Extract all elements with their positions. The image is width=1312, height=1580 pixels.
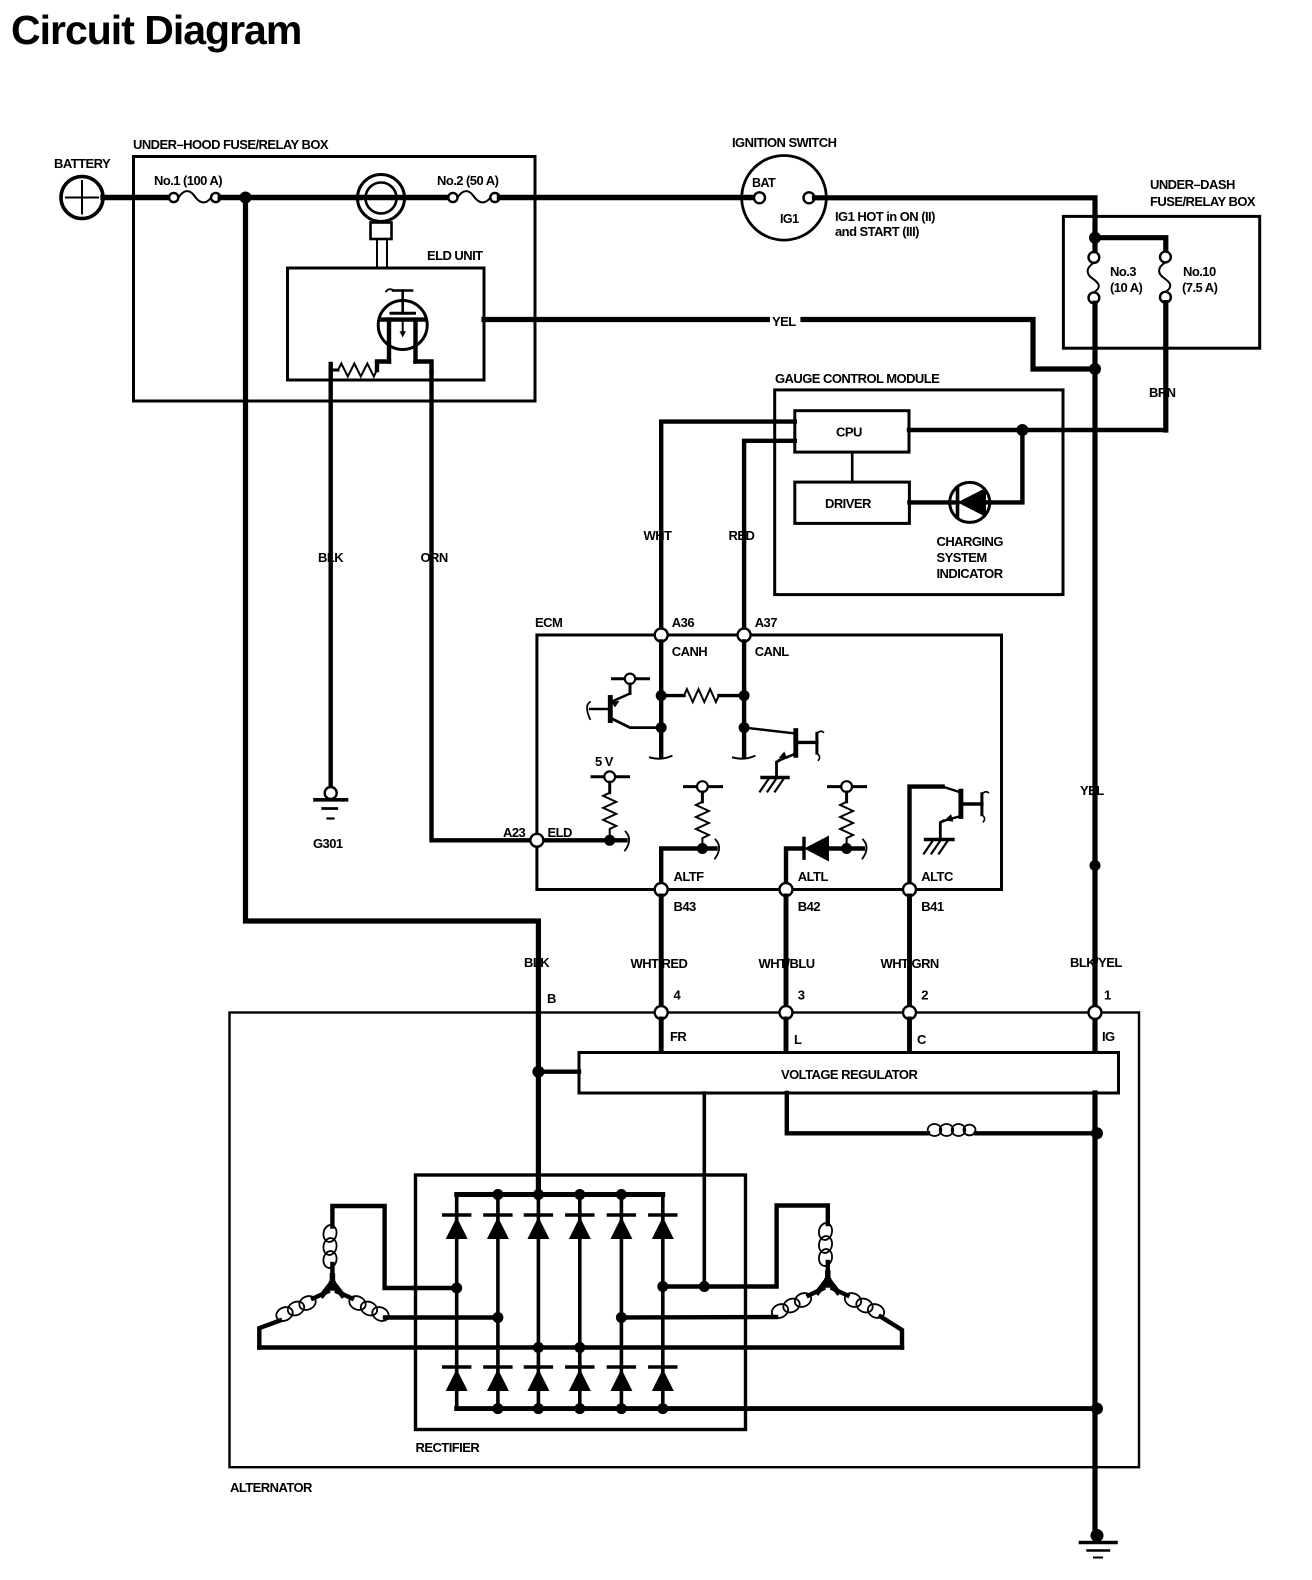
node leg4 tap <box>574 1342 585 1353</box>
wire ALTF line <box>661 849 715 890</box>
svg-text:No.1 (100 A): No.1 (100 A) <box>154 173 222 188</box>
resistor ALTL pull-up <box>840 802 853 844</box>
svg-text:FR: FR <box>670 1029 687 1044</box>
terminal B43 <box>655 883 668 896</box>
svg-text:ALTF: ALTF <box>674 869 705 884</box>
wire rectifier bottom bus <box>457 1406 1097 1411</box>
node B tap to regulator <box>532 1066 544 1078</box>
svg-text:RED: RED <box>729 528 755 543</box>
wire node to indicator <box>990 430 1023 502</box>
diode column 3 <box>525 1195 551 1409</box>
terminal 1 <box>1089 1006 1102 1019</box>
svg-text:BAT: BAT <box>752 176 776 190</box>
node CANL transistor junction <box>739 722 750 733</box>
svg-text:L: L <box>794 1032 802 1047</box>
svg-text:B42: B42 <box>798 899 821 914</box>
coil phase U <box>322 1224 338 1243</box>
ALTF pull-up supply <box>685 781 722 802</box>
node on YEL line <box>1090 860 1101 871</box>
wire IG1 to under-dash box <box>815 198 1096 252</box>
svg-text:B43: B43 <box>674 899 697 914</box>
diode ALTL <box>786 836 867 890</box>
svg-text:No.2 (50 A): No.2 (50 A) <box>437 173 499 188</box>
wire BLK branch battery junction down to alternator B <box>246 198 539 1195</box>
svg-text:ELD: ELD <box>548 825 573 840</box>
node star point right <box>818 1273 838 1292</box>
svg-text:YEL: YEL <box>772 314 796 329</box>
terminal 3 <box>780 1006 793 1019</box>
wire ELD legs to resistor / ORN <box>377 362 389 371</box>
node leg1 tap <box>451 1283 462 1294</box>
LED charging system indicator <box>909 482 1003 581</box>
alternator box <box>230 1013 1140 1496</box>
node CANL resistor junction <box>739 690 750 701</box>
wire CPU to DRIVER <box>851 452 854 482</box>
svg-text:SYSTEM: SYSTEM <box>937 550 987 565</box>
node ALTF <box>697 843 708 854</box>
svg-text:YEL: YEL <box>1080 783 1104 798</box>
node bottom bus leg2 <box>492 1403 503 1414</box>
svg-text:BLK: BLK <box>318 550 344 565</box>
ground G301 <box>313 787 347 851</box>
wire regulator sense to stator tap <box>702 1093 706 1287</box>
diode column 1 <box>444 1195 470 1409</box>
svg-text:WHT: WHT <box>644 528 673 543</box>
wire WHT/RED B43 to alternator 4 <box>659 896 664 1006</box>
right stator winding <box>616 1206 902 1348</box>
wire ORN from ELD to A23 <box>432 372 531 840</box>
svg-text:(10 A): (10 A) <box>1110 280 1143 295</box>
wire CANL vertical <box>742 642 746 757</box>
fuse No.10 (7.5 A) <box>1159 252 1218 303</box>
svg-text:CPU: CPU <box>836 425 862 440</box>
node top bus leg2 <box>492 1189 503 1200</box>
wire WHT/GRN B41 to alternator 2 <box>907 896 912 1006</box>
svg-text:VOLTAGE REGULATOR: VOLTAGE REGULATOR <box>781 1067 918 1082</box>
terminal A36 <box>655 629 668 642</box>
svg-text:ALTC: ALTC <box>921 869 954 884</box>
node star point left <box>322 1276 342 1295</box>
DRIVER U2 <box>795 482 910 523</box>
node junction battery feed <box>240 192 252 204</box>
svg-text:No.3: No.3 <box>1110 264 1136 279</box>
wire phase U to diode leg 1 <box>332 1206 450 1288</box>
ECM box <box>535 615 1002 890</box>
voltage regulator box <box>579 1053 1119 1094</box>
svg-text:3: 3 <box>798 988 805 1003</box>
fuse No.3 (10 A) <box>1088 252 1143 303</box>
rectifier box <box>416 1175 746 1455</box>
5V supply for ELD input <box>592 754 629 793</box>
resistor ELD pull-up <box>603 793 616 835</box>
terminal B42 <box>780 883 793 896</box>
svg-text:WHT/GRN: WHT/GRN <box>881 956 939 971</box>
wire BLK from ELD to G301 <box>329 364 333 787</box>
svg-text:A37: A37 <box>755 615 778 630</box>
ground alternator chassis <box>1081 1529 1117 1558</box>
ELD unit box <box>288 248 485 380</box>
svg-text:CANH: CANH <box>672 644 708 659</box>
svg-text:ALTERNATOR: ALTERNATOR <box>230 1480 313 1495</box>
wire CPU output to BRN <box>909 428 1166 432</box>
battery BATTERY <box>54 156 111 219</box>
terminal A37 <box>738 629 751 642</box>
ELD toroid sensor <box>358 175 449 269</box>
CPU U1 <box>795 411 909 452</box>
svg-text:UNDER–HOOD FUSE/RELAY BOX: UNDER–HOOD FUSE/RELAY BOX <box>133 137 329 152</box>
svg-text:RECTIFIER: RECTIFIER <box>416 1440 481 1455</box>
svg-text:FUSE/RELAY BOX: FUSE/RELAY BOX <box>1150 194 1256 209</box>
wire rectifier top bus <box>457 1192 663 1197</box>
svg-text:BLK: BLK <box>524 955 550 970</box>
svg-text:CHARGING: CHARGING <box>937 534 1004 549</box>
wire fuse No.2 to ignition switch <box>500 195 755 200</box>
node bottom bus leg5 <box>616 1403 627 1414</box>
fuse No.2 (50 A) <box>437 173 500 202</box>
transistor Q2 CAN driver right <box>744 728 823 792</box>
node bottom bus leg6 <box>657 1403 668 1414</box>
wire BRN from fuse No.10 down <box>1163 303 1168 430</box>
coil phase V lower-right <box>337 1292 352 1299</box>
wire branch to fuse No.10 <box>1095 238 1166 252</box>
svg-text:IG: IG <box>1102 1029 1115 1044</box>
svg-text:and START (III): and START (III) <box>835 224 919 239</box>
node ELD pull-up <box>604 835 615 846</box>
svg-text:ORN: ORN <box>421 550 448 565</box>
svg-text:1: 1 <box>1104 988 1111 1003</box>
gauge control module box <box>775 371 1063 595</box>
diode column 4 <box>567 1195 593 1409</box>
svg-text:BLK/YEL: BLK/YEL <box>1070 955 1122 970</box>
diode column 6 <box>650 1195 676 1409</box>
svg-text:ALTL: ALTL <box>798 869 829 884</box>
svg-text:ELD UNIT: ELD UNIT <box>427 248 483 263</box>
node field coil to IG line <box>1091 1127 1103 1139</box>
node leg2 tap <box>492 1312 503 1323</box>
svg-text:(7.5 A): (7.5 A) <box>1182 280 1218 295</box>
wire FR into regulator <box>659 1019 664 1053</box>
inductor rotor field coil <box>928 1124 942 1136</box>
wire C into regulator <box>907 1019 912 1053</box>
node top bus leg4 <box>574 1189 585 1200</box>
fuse No.1 (100 A) <box>154 173 222 202</box>
node ALTL <box>841 843 852 854</box>
terminal 4 <box>655 1006 668 1019</box>
svg-text:ECM: ECM <box>535 615 562 630</box>
svg-text:2: 2 <box>921 988 928 1003</box>
wire B tap to regulator <box>538 1069 579 1073</box>
coil phase Z lower-right <box>833 1289 848 1296</box>
node junction fuse feed <box>1089 232 1101 244</box>
svg-text:CANL: CANL <box>755 644 790 659</box>
svg-text:No.10: No.10 <box>1183 264 1216 279</box>
svg-text:A36: A36 <box>672 615 695 630</box>
node leg3 tap <box>533 1342 544 1353</box>
svg-text:Circuit Diagram: Circuit Diagram <box>11 7 301 53</box>
wire YEL from ELD unit to right side <box>484 310 1101 375</box>
left stator winding <box>259 1206 503 1348</box>
wire fuse No.1 to toroid <box>220 195 357 200</box>
svg-text:BRN: BRN <box>1149 385 1176 400</box>
coil phase W lower-left <box>313 1292 328 1299</box>
svg-text:WHT/BLU: WHT/BLU <box>759 956 815 971</box>
transistor Q1 CAN driver left <box>587 674 661 728</box>
node bottom bus leg3 <box>533 1403 544 1414</box>
svg-text:IG1 HOT in ON (II): IG1 HOT in ON (II) <box>835 209 935 224</box>
under-hood fuse/relay box <box>133 137 535 401</box>
node CPU output <box>1016 424 1028 436</box>
svg-text:UNDER–DASH: UNDER–DASH <box>1150 177 1235 192</box>
wire YEL vertical from fuse No.3 down right side <box>1092 303 1097 1052</box>
coil phase X <box>818 1222 834 1241</box>
wire RED CPU to A37 <box>744 441 795 628</box>
wire YEL jog to fuse No.3 output <box>803 320 1095 370</box>
wire L into regulator <box>784 1019 789 1053</box>
svg-text:5 V: 5 V <box>595 754 614 769</box>
node CANH transistor junction <box>656 722 667 733</box>
wire L field line with coil <box>787 1093 1103 1139</box>
svg-text:INDICATOR: INDICATOR <box>937 566 1004 581</box>
terminal B41 <box>903 883 916 896</box>
node leg6 tap <box>657 1281 668 1292</box>
wire WHT CPU to A36 <box>661 422 795 628</box>
transistor Q3 ALTC <box>910 787 989 889</box>
svg-text:C: C <box>917 1032 927 1047</box>
svg-text:BATTERY: BATTERY <box>54 156 111 171</box>
svg-text:B41: B41 <box>921 899 944 914</box>
wire phase X to diode leg 6 <box>663 1206 828 1287</box>
svg-text:DRIVER: DRIVER <box>825 496 872 511</box>
svg-text:IGNITION SWITCH: IGNITION SWITCH <box>732 135 837 150</box>
svg-text:B: B <box>547 991 556 1006</box>
resistor ALTF pull-up <box>696 802 709 844</box>
node bottom bus to ground wire <box>1091 1403 1103 1415</box>
coil phase Y lower-left <box>809 1289 824 1296</box>
diode column 2 <box>485 1195 511 1409</box>
node bottom bus leg4 <box>574 1403 585 1414</box>
terminal 2 <box>903 1006 916 1019</box>
wire ELD A23 line <box>543 838 625 842</box>
svg-text:GAUGE CONTROL MODULE: GAUGE CONTROL MODULE <box>775 371 940 386</box>
under-dash fuse/relay box <box>1063 177 1259 348</box>
ELD sensor element <box>378 289 427 361</box>
resistor ELD shunt <box>331 364 377 377</box>
svg-text:IG1: IG1 <box>780 212 799 226</box>
ignition switch <box>732 135 935 240</box>
wire WHT/BLU B42 to alternator 3 <box>784 896 789 1006</box>
node CANH resistor junction <box>656 690 667 701</box>
node regulator sense tap <box>699 1281 710 1292</box>
ALTL pull-up supply <box>829 781 866 802</box>
node top bus leg5 <box>616 1189 627 1200</box>
diode column 5 <box>608 1195 634 1409</box>
svg-text:WHT/RED: WHT/RED <box>631 956 688 971</box>
wire battery to fuse No.1 <box>103 195 169 200</box>
wire label YEL <box>770 310 803 329</box>
resistor CAN termination <box>661 689 744 702</box>
svg-text:G301: G301 <box>313 836 343 851</box>
node leg5 tap <box>616 1312 627 1323</box>
wire CANH vertical <box>659 642 663 757</box>
wire stator common tap line <box>259 1345 902 1349</box>
node YEL junction <box>1089 363 1101 375</box>
node top bus B feed <box>533 1189 544 1200</box>
svg-text:A23: A23 <box>503 825 526 840</box>
wire IG continuation below regulator <box>1092 1093 1097 1528</box>
terminal A23 <box>530 834 543 847</box>
